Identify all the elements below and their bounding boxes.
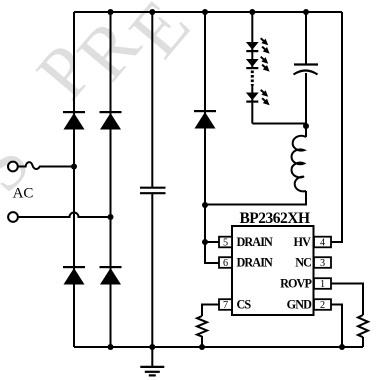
svg-text:BP2362XH: BP2362XH — [239, 210, 310, 227]
svg-text:NC: NC — [295, 255, 311, 269]
svg-text:7: 7 — [223, 300, 228, 311]
svg-text:1: 1 — [320, 279, 325, 290]
svg-text:DRAIN: DRAIN — [237, 235, 274, 249]
svg-text:HV: HV — [294, 235, 312, 249]
svg-text:5: 5 — [223, 238, 228, 249]
svg-text:4: 4 — [320, 238, 325, 249]
svg-text:AC: AC — [13, 186, 34, 202]
svg-text:ROVP: ROVP — [280, 276, 312, 290]
svg-text:2: 2 — [320, 300, 325, 311]
svg-text:GND: GND — [287, 297, 312, 311]
svg-text:DRAIN: DRAIN — [237, 255, 274, 269]
svg-text:CS: CS — [237, 297, 252, 311]
svg-text:3: 3 — [320, 258, 325, 269]
svg-text:6: 6 — [223, 258, 228, 269]
